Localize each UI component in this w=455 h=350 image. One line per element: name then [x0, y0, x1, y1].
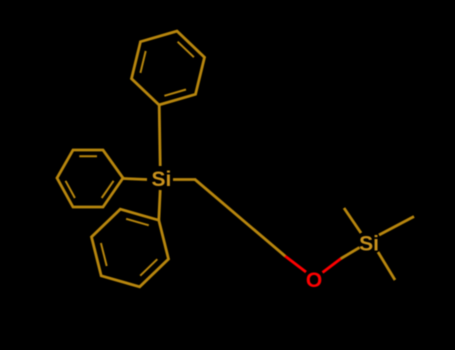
phenyl ring B (left) [57, 150, 123, 207]
wire: bond O to Si2 olive half [341, 248, 360, 259]
wire: chain diagonal C to midpoint [195, 180, 285, 257]
svg-text:Si: Si [151, 168, 171, 191]
wire: bond Si1 to ring B [123, 179, 147, 180]
wire: Si2 methyl up-left [344, 208, 361, 233]
wire: bond to O red half [285, 256, 306, 272]
wire: bond Si1 to ring C [159, 190, 160, 220]
phenyl ring A (top) [132, 31, 205, 105]
wire: bond O to Si2 red half [323, 259, 342, 273]
wire: Si2 methyl down-right [378, 252, 395, 280]
wire: Si2 methyl up-right [379, 217, 414, 236]
phenyl ring C (bottom-left) [92, 209, 169, 287]
wire: bond Si1 right to C1 [173, 178, 196, 181]
svg-text:O: O [306, 269, 322, 292]
svg-text:Si: Si [359, 233, 379, 256]
wire: bond Si1 to ring A [159, 105, 160, 166]
